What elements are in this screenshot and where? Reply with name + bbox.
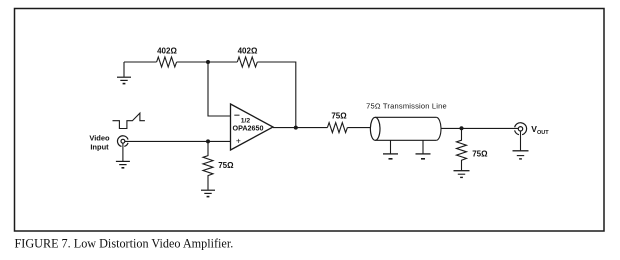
wire R1 to node A	[177, 61, 208, 63]
wire R2 to top-right corner and down to output node	[257, 62, 296, 128]
svg-text:+: +	[236, 135, 241, 145]
wire node A down to inverting input	[208, 62, 231, 116]
ground G1 top-left	[117, 62, 131, 84]
op-amp U1 triangle	[231, 104, 274, 150]
ground G7 below J2	[513, 131, 529, 159]
resistor R5 75ohm shunt at input	[203, 141, 213, 189]
resistor R3 75ohm series	[327, 123, 347, 133]
wire node C to R3	[296, 127, 328, 129]
pulse waveform icon	[113, 113, 145, 128]
svg-text:75Ω: 75Ω	[472, 150, 488, 159]
ground G4 under transmission line left	[383, 140, 398, 159]
node B junction dot	[206, 139, 210, 143]
wire J1 to op-amp non-inverting input	[125, 140, 231, 142]
node C junction dot	[294, 126, 298, 130]
svg-text:75Ω: 75Ω	[218, 161, 234, 170]
transmission line TL1 body	[370, 117, 441, 140]
wire node D to J2	[462, 127, 519, 129]
ground G3 below R5	[201, 190, 215, 196]
svg-text:Video: Video	[89, 134, 110, 143]
wire op-amp output to node C	[273, 127, 296, 129]
node D junction dot	[460, 126, 464, 130]
resistor R1 402ohm	[157, 57, 177, 67]
connector J1 video input jack	[118, 136, 129, 147]
ground G6 below R4	[454, 171, 470, 178]
wire transmission line to node D	[441, 127, 462, 129]
wire G1 to R1	[124, 61, 157, 63]
ground G5 under transmission line right	[416, 140, 431, 159]
svg-text:75Ω: 75Ω	[331, 111, 347, 120]
svg-text:Input: Input	[90, 143, 109, 152]
svg-text:402Ω: 402Ω	[157, 47, 177, 56]
ground G2 below J1	[116, 143, 130, 167]
resistor R2 402ohm	[237, 57, 257, 67]
wire node A to R2	[208, 61, 237, 63]
wire R3 to transmission line	[347, 127, 370, 129]
connector J2 output jack	[515, 123, 527, 135]
svg-text:75Ω Transmission Line: 75Ω Transmission Line	[366, 101, 447, 110]
svg-text:FIGURE 7. Low Distortion Video: FIGURE 7. Low Distortion Video Amplifier…	[15, 237, 234, 251]
op-amp U1 minus sign	[234, 114, 239, 116]
svg-text:402Ω: 402Ω	[238, 47, 258, 56]
svg-text:OPA2650: OPA2650	[232, 123, 263, 132]
node A junction dot	[206, 60, 210, 64]
resistor R4 75ohm load	[457, 128, 467, 170]
